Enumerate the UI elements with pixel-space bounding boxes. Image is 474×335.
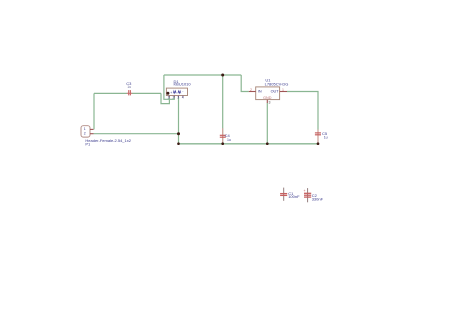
OUT pin stub <box>280 91 287 93</box>
junction: C5 at rail <box>317 142 320 145</box>
svg-text:Header-Female-2.54_1x2: Header-Female-2.54_1x2 <box>85 138 131 143</box>
wire: bottom ground rail <box>179 143 319 145</box>
wire: top-left horizontal to bridge AC <box>94 92 161 94</box>
svg-text:GND: GND <box>263 96 272 100</box>
regulator U1 L7805CV-DG <box>249 77 289 104</box>
svg-text:330nF: 330nF <box>312 196 324 201</box>
svg-text:P1: P1 <box>85 142 91 147</box>
pin 1 stub <box>90 128 94 130</box>
header P1 (Header-Female 2.54_1x2) <box>81 126 132 147</box>
wire: top bus (+) <box>164 74 241 76</box>
bridge rectifier D1 KBU1010 <box>166 79 191 100</box>
wire: top bus drop to regulator IN <box>241 75 249 92</box>
svg-text:1: 1 <box>168 96 170 100</box>
wire: header pin1 vertical up <box>93 93 95 129</box>
wire: header pin2 horizontal <box>94 133 179 135</box>
capacitor C2 330nF (standalone, polarized) <box>304 188 324 202</box>
svg-text:1u: 1u <box>227 138 231 142</box>
pin 2 stub <box>90 133 94 135</box>
svg-text:2: 2 <box>173 96 175 100</box>
svg-text:+: + <box>170 91 172 95</box>
svg-text:3: 3 <box>269 101 271 105</box>
IN pin stub <box>249 91 256 93</box>
svg-text:+: + <box>304 189 306 193</box>
wire: regulator OUT to right and down through C5 <box>287 92 318 144</box>
junction: GND drop at rail <box>266 142 269 145</box>
svg-text:1u: 1u <box>324 136 328 140</box>
wire: route into bridge pin 1 <box>161 93 169 103</box>
GND pin stub <box>266 100 268 103</box>
capacitor C5 <box>315 130 328 144</box>
svg-text:1u: 1u <box>127 85 131 89</box>
svg-text:C4: C4 <box>225 133 231 138</box>
wire: top bus down-around to bridge pin 2 <box>164 75 174 99</box>
svg-text:2: 2 <box>84 131 86 135</box>
pin numbers <box>168 96 184 100</box>
capacitor C1 100nF (standalone) <box>280 188 300 201</box>
wire: vertical through C4 to bottom rail <box>222 75 224 144</box>
junction: rail left corner <box>177 142 180 145</box>
pin stubs <box>168 96 170 98</box>
svg-text:1: 1 <box>84 127 86 131</box>
svg-text:100nF: 100nF <box>288 194 300 199</box>
capacitor C3 (series, in top-left wire) <box>126 81 132 96</box>
wire: bridge minus vertical to rail <box>178 97 180 144</box>
svg-text:IN: IN <box>258 89 262 93</box>
svg-text:4: 4 <box>182 96 184 100</box>
svg-text:L7805CV-DG: L7805CV-DG <box>265 81 289 86</box>
junction: pin2 wire joins minus vertical <box>177 132 180 135</box>
junction: C4 at rail <box>221 142 224 145</box>
svg-text:2: 2 <box>250 88 252 92</box>
svg-text:3: 3 <box>177 96 179 100</box>
junction: bridge AC dot <box>166 92 169 95</box>
svg-text:KBU1010: KBU1010 <box>174 82 192 87</box>
junction: top bus / C4 branch <box>221 74 224 77</box>
svg-text:1: 1 <box>282 88 284 92</box>
svg-text:OUT: OUT <box>271 89 280 93</box>
capacitor C4 <box>220 128 231 143</box>
wire: regulator GND drop <box>266 103 268 144</box>
